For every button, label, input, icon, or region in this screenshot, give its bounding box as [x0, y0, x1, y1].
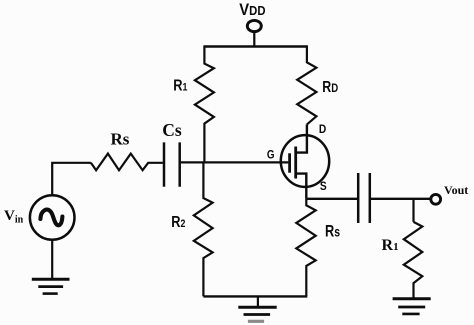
resistor R1 (load) — [404, 222, 423, 299]
capacitor Cs — [164, 142, 180, 186]
ground (middle) bars — [238, 306, 276, 309]
svg-text:Rs: Rs — [111, 130, 130, 149]
transistor Q1 gate bar — [288, 153, 291, 172]
wire source node to Cout — [306, 198, 357, 200]
resistor RS (source) — [296, 199, 315, 297]
transistor Q1 MOSFET circle — [281, 135, 329, 187]
transistor Q1 source lead — [296, 174, 307, 199]
wire Vin to Rs — [52, 163, 91, 196]
ground (Vin) — [32, 278, 70, 281]
capacitor Cout — [358, 173, 370, 223]
wire Vin to ground — [51, 240, 53, 279]
Vout terminal — [431, 194, 441, 204]
svg-text:Cs: Cs — [162, 120, 182, 140]
wire top rail — [204, 45, 307, 47]
transistor Q1 drain lead — [296, 124, 307, 152]
source Vin sine — [40, 210, 62, 226]
ground (middle) stem — [257, 296, 259, 307]
svg-text:VDD: VDD — [239, 1, 265, 19]
wire bottom rail — [203, 295, 307, 297]
svg-text:Vout: Vout — [444, 183, 468, 197]
svg-text:S: S — [320, 180, 327, 193]
wire junction to R1 load — [412, 199, 414, 222]
svg-text:Rs: Rs — [325, 222, 340, 241]
VDD terminal — [247, 20, 261, 31]
resistor R2 — [194, 162, 213, 296]
resistor Rs — [91, 154, 163, 171]
wire VDD stem — [253, 32, 255, 47]
resistor RD — [297, 45, 316, 124]
wire gate (Cs to gate bar) — [181, 161, 289, 163]
svg-text:G: G — [267, 149, 275, 162]
wire Cout to Vout — [371, 198, 431, 200]
source Vin circle — [30, 195, 75, 240]
resistor R1 (upper bias) — [195, 45, 214, 162]
svg-text:D: D — [319, 123, 326, 136]
transistor Q1 channel bar — [294, 147, 297, 179]
ground (load) — [393, 297, 431, 300]
